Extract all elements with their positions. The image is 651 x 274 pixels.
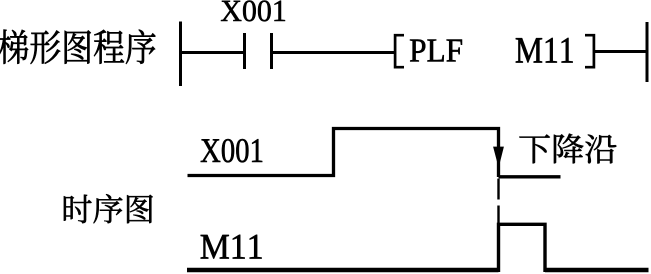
contact X001 (normally-open)	[245, 33, 272, 69]
falling edge arrowhead	[494, 147, 504, 166]
left power rail	[179, 22, 182, 87]
right power rail	[646, 22, 649, 82]
instruction right bracket	[585, 35, 594, 67]
label: 梯形图程序 (ladder diagram program)	[0, 30, 155, 64]
label: X001 (contact name, ladder)	[221, 1, 285, 22]
label: 时序图 (timing diagram)	[64, 194, 153, 223]
waveform M11: low, pulse, low	[187, 224, 649, 272]
waveform X001: low, rising edge, high, falling edge, low	[188, 129, 561, 178]
instruction left bracket	[395, 35, 404, 67]
wire: left rail to contact X001	[179, 51, 245, 54]
wire: instruction to right rail	[594, 50, 648, 53]
label: M11 (waveform name)	[201, 235, 262, 259]
label: 下降沿 (falling edge)	[519, 134, 616, 164]
label: X001 (waveform name)	[201, 139, 262, 162]
label: M11 (instruction operand, ladder)	[516, 38, 573, 62]
dashed sync line at falling edge	[497, 179, 499, 223]
wire: contact X001 to PLF instruction	[270, 51, 395, 54]
label: PLF (falling-edge pulse instruction)	[410, 40, 462, 62]
